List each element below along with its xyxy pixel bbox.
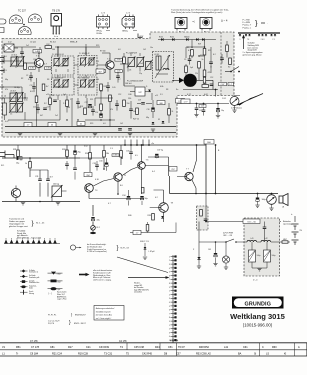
svg-text:4.17: 4.17	[187, 94, 191, 96]
resistor R18	[80, 106, 86, 115]
svg-text:0.62: 0.62	[84, 146, 88, 148]
audio in wire	[2, 155, 80, 159]
label box 40	[48, 123, 56, 127]
svg-text:8: 8	[169, 317, 170, 319]
svg-text:C61: C61	[243, 346, 248, 349]
svg-text:1 2 3: 1 2 3	[101, 13, 105, 15]
svg-text:2 L 306(W) 43: 2 L 306(W) 43	[52, 78, 63, 80]
antenna coil L1	[3, 98, 7, 120]
svg-text:n15: n15	[155, 95, 158, 97]
left edge connector pins	[0, 56, 4, 99]
svg-text:4n7: 4n7	[50, 177, 53, 179]
electrolytic C30 (horizontal)	[16, 156, 22, 164]
svg-text:47k: 47k	[5, 89, 8, 91]
top rail wire	[2, 47, 100, 57]
svg-text:N 29 - 03: N 29 - 03	[121, 248, 130, 250]
svg-text:N.B.LT. 1/9: N.B.LT. 1/9	[140, 241, 149, 243]
svg-text:C42 R45: C42 R45	[142, 353, 152, 356]
capacitor C26	[209, 58, 213, 68]
svg-text:C37: C37	[126, 151, 129, 153]
service note block A	[9, 218, 45, 229]
svg-text:Kl.1: Kl.1	[1, 165, 4, 167]
svg-text:0.16: 0.16	[95, 179, 99, 181]
svg-text:FC-149(Fe)/E: FC-149(Fe)/E	[126, 53, 138, 55]
legend arrow	[79, 273, 90, 276]
misc caps bottom rail	[118, 119, 164, 130]
extra labels quadrant4	[187, 50, 226, 100]
svg-text:R21: R21	[208, 50, 211, 52]
preamp transistor T3a	[11, 186, 20, 202]
earpiece transducer (black)	[172, 74, 213, 91]
svg-text:0.27Ω im Lautsprecher): 0.27Ω im Lautsprecher)	[87, 250, 107, 253]
svg-text:Ge-Diode: Ge-Diode	[29, 275, 36, 277]
lower board labels2	[14, 86, 163, 105]
svg-text:6: 6	[169, 310, 170, 312]
svg-text:1.4: 1.4	[96, 61, 99, 63]
svg-text:0.55: 0.55	[24, 100, 28, 102]
resistor R36	[146, 222, 149, 233]
band diode D3	[184, 36, 189, 41]
diode D7	[161, 216, 164, 218]
legend kOhm note	[49, 291, 67, 301]
svg-text:10µ: 10µ	[221, 110, 224, 112]
transistor T5	[138, 160, 150, 170]
svg-text:E105: E105	[170, 37, 174, 39]
svg-text:8: 8	[169, 283, 170, 285]
svg-text:E105: E105	[159, 37, 163, 39]
svg-text:R53 C59 L42: R53 C59 L42	[196, 353, 211, 356]
extra labels left block	[4, 56, 99, 105]
svg-text:C81: C81	[50, 346, 55, 349]
can grid wires	[57, 44, 86, 100]
svg-text:GE06=: GE06=	[122, 31, 129, 33]
svg-text:R27 1k: R27 1k	[133, 119, 139, 121]
svg-text:S2: S2	[228, 67, 230, 69]
svg-text:C31: C31	[35, 176, 38, 178]
svg-text:C35 C38: C35 C38	[134, 346, 144, 349]
resistor R34	[85, 145, 91, 172]
electrolytic C43 (hatched)	[249, 242, 261, 268]
resistor R19	[168, 103, 174, 123]
svg-text:gemessen geg. Masse: gemessen geg. Masse	[243, 54, 262, 56]
detector wires	[120, 64, 152, 100]
legend col1 row3	[20, 280, 39, 284]
resistor R32a	[25, 158, 31, 177]
wires right lobe	[186, 40, 211, 81]
wires mid left	[2, 87, 60, 120]
note text top	[171, 9, 229, 15]
arrow to chassis note	[242, 35, 259, 52]
legend col1 row4	[20, 285, 37, 290]
oscillator can L5	[153, 52, 174, 83]
svg-text:1k: 1k	[25, 163, 27, 165]
legend part numbers row1	[48, 313, 86, 317]
resistor R23	[198, 59, 204, 68]
svg-text:2: 2	[169, 260, 170, 262]
svg-text:}: }	[117, 246, 119, 252]
svg-text:C40: C40	[128, 94, 131, 96]
legend col1 row2	[20, 275, 39, 279]
svg-text:C37 5µ: C37 5µ	[157, 150, 164, 152]
resistor R37	[120, 145, 123, 165]
svg-text:R60: R60	[272, 346, 277, 349]
svg-text:0.9: 0.9	[100, 91, 103, 93]
legend col1 row5	[20, 290, 34, 295]
svg-text:1: 1	[169, 291, 170, 293]
svg-text:C18: C18	[147, 109, 150, 111]
svg-text:R8: R8	[166, 89, 168, 91]
capacitor C11	[20, 47, 24, 58]
svg-text:4k7: 4k7	[40, 115, 43, 117]
varicap diode D5	[146, 86, 151, 92]
legend part numbers row2	[48, 320, 87, 326]
svg-text:L.7: L.7	[230, 84, 233, 86]
wires T2	[97, 51, 122, 81]
svg-text:3: 3	[169, 332, 170, 334]
svg-text:UKW: UKW	[139, 36, 143, 38]
svg-text:ICIC - 56: ICIC - 56	[247, 222, 256, 224]
power grounds	[252, 268, 267, 282]
svg-text:C7: C7	[63, 77, 65, 79]
band legend text	[243, 19, 269, 30]
svg-text:0.7: 0.7	[108, 203, 111, 205]
pointer arrow	[128, 276, 170, 279]
elcap C37b	[155, 150, 164, 159]
svg-text:C44: C44	[63, 61, 66, 63]
svg-text:470: 470	[208, 72, 211, 74]
svg-text:22k: 22k	[195, 73, 198, 75]
svg-text:+9v: +9v	[151, 143, 154, 145]
power wires	[244, 241, 290, 243]
phone jack J2	[267, 195, 277, 211]
switch contact pair S2	[245, 34, 251, 41]
IC package top view U1	[97, 13, 111, 35]
svg-text:1k2: 1k2	[143, 49, 146, 51]
svg-text:BA: BA	[238, 353, 242, 356]
label FC-1496	[127, 81, 144, 83]
svg-text:R33: R33	[62, 149, 65, 151]
svg-text:(10015-996.00): (10015-996.00)	[243, 323, 273, 328]
trimmer CT5	[9, 103, 24, 116]
electrolytic C36	[255, 194, 266, 208]
resistor R12	[45, 44, 52, 48]
transistor T4	[114, 173, 127, 181]
svg-text:9: 9	[169, 287, 170, 289]
loudspeaker LS	[279, 194, 288, 209]
output jack chain	[90, 205, 101, 234]
svg-text:C7 178: C7 178	[30, 341, 38, 343]
svg-text:Lage n.Plan: Lage n.Plan	[57, 299, 67, 301]
svg-text:100µ: 100µ	[257, 255, 261, 257]
coupling note text	[87, 243, 130, 253]
supply note	[283, 220, 292, 226]
svg-text:L4: L4	[4, 96, 6, 98]
svg-text:3.2: 3.2	[44, 103, 47, 105]
capacitor C33a	[65, 161, 69, 170]
svg-text:±20% wenn n. angeg.: ±20% wenn n. angeg.	[93, 280, 112, 282]
svg-text:2 L 306(S) 44: 2 L 306(S) 44	[79, 78, 89, 80]
svg-text:R13: R13	[104, 86, 107, 88]
delta tolerance note	[221, 19, 228, 23]
trimmer CT4	[9, 91, 24, 103]
IF transformer Fi3	[52, 77, 75, 95]
service note block B	[17, 230, 41, 240]
board name label	[8, 41, 78, 43]
resistor R22	[187, 47, 193, 56]
component value annotations	[5, 45, 213, 125]
svg-text:Pu(2) = L: Pu(2) = L	[243, 27, 252, 29]
svg-text:1: 1	[169, 325, 170, 327]
svg-text:1305: 1305	[113, 155, 117, 157]
label box 1488	[33, 50, 42, 54]
resistor R33	[62, 145, 68, 158]
battery B1	[291, 213, 303, 245]
svg-text:R8: R8	[47, 79, 49, 81]
svg-text:C4 178: C4 178	[119, 341, 127, 343]
svg-text:2 L 305(M) 42: 2 L 305(M) 42	[79, 53, 90, 55]
band diode D1	[158, 37, 216, 41]
wires IF bottom	[72, 91, 115, 127]
svg-text:1k2: 1k2	[120, 123, 123, 125]
svg-text:D2: D2	[158, 119, 160, 121]
label box 28x	[84, 173, 92, 177]
band diode D2	[170, 37, 174, 41]
svg-text:Z-Diode: Z-Diode	[29, 280, 35, 282]
svg-text:C4 40p: C4 40p	[14, 87, 20, 89]
svg-text:einstellen: einstellen	[134, 291, 142, 294]
svg-text:Δ ~ 4: Δ ~ 4	[221, 19, 228, 23]
resistor R35	[148, 214, 155, 221]
svg-text:C9: C9	[184, 59, 186, 61]
svg-text:C52: C52	[118, 94, 121, 96]
svg-text:22p: 22p	[139, 73, 142, 75]
svg-text:R23: R23	[90, 123, 93, 125]
svg-text:2.7: 2.7	[118, 79, 121, 81]
electrolytic C45	[206, 242, 218, 266]
svg-text:0.12: 0.12	[8, 42, 12, 44]
svg-text:R6: R6	[52, 95, 54, 97]
electrolytic C18	[147, 100, 155, 118]
svg-text:2: 2	[169, 329, 170, 331]
power switch	[218, 233, 244, 243]
svg-text:L42: L42	[265, 238, 268, 240]
svg-text:R25: R25	[203, 83, 206, 85]
bottom rail of board	[5, 127, 176, 133]
capacitor C42	[263, 222, 267, 241]
note under arrow	[243, 51, 263, 56]
transistor T6	[159, 203, 174, 213]
svg-text:4: 4	[169, 268, 170, 270]
svg-text:C57: C57	[176, 353, 181, 356]
svg-text:C2: C2	[26, 75, 28, 77]
svg-text:R31: R31	[90, 99, 93, 101]
earphone jack J1	[230, 97, 239, 113]
locator strip row1	[2, 346, 300, 349]
legend col2 row1	[48, 272, 63, 276]
capacitor C15	[43, 107, 49, 110]
band switch contact	[225, 67, 240, 73]
bus taps	[124, 140, 154, 146]
svg-text:GA100: GA100	[184, 36, 189, 39]
svg-text:1.05: 1.05	[112, 87, 116, 89]
svg-text:L41: L41	[224, 346, 229, 349]
capacitor C23	[194, 104, 202, 117]
pointer diagonal	[117, 257, 168, 273]
svg-text:spannung: spannung	[283, 224, 292, 226]
svg-text:FK06=: FK06=	[97, 33, 104, 35]
jack note	[231, 108, 242, 110]
extra audio labels	[84, 146, 158, 218]
transistor package label TC237	[18, 10, 27, 13]
zener diode D8	[193, 242, 201, 268]
legend col2 row3	[48, 287, 63, 291]
svg-text:9: 9	[169, 321, 170, 323]
svg-text:C51: C51	[168, 346, 173, 349]
legend col1 row1	[20, 269, 39, 273]
svg-text:0.47: 0.47	[5, 121, 9, 123]
corner index mark	[138, 34, 143, 39]
svg-text:0.7: 0.7	[44, 64, 47, 66]
svg-text:[…]: […]	[49, 293, 53, 295]
capacitor C41	[204, 219, 208, 221]
label box 300	[204, 140, 214, 145]
label box ICIC-56	[243, 219, 260, 224]
svg-text:C7 178: C7 178	[31, 346, 40, 349]
bottom audio rail	[2, 201, 80, 205]
contact strip column	[169, 255, 177, 343]
capacitor C2	[26, 72, 33, 82]
transistor case bottom view B1	[9, 15, 23, 24]
volume pot P1	[51, 184, 67, 202]
transistor T1	[35, 56, 44, 68]
svg-text:0.62: 0.62	[204, 94, 208, 96]
svg-text:3: 3	[169, 298, 170, 300]
resistor R26	[185, 66, 188, 73]
svg-text:GRUNDIG: GRUNDIG	[245, 301, 272, 307]
svg-text:C19: C19	[138, 100, 141, 102]
svg-text:3.3: 3.3	[28, 79, 31, 81]
resistor R38	[141, 188, 144, 194]
svg-text:LS: LS	[266, 353, 269, 356]
resistor R41	[200, 210, 203, 217]
IF transformer Fi2	[78, 53, 97, 75]
svg-text:0.1: 0.1	[188, 50, 191, 52]
choke L41	[247, 238, 257, 242]
svg-text:1 2 3: 1 2 3	[126, 13, 130, 15]
switch contact pair S1	[239, 34, 241, 41]
svg-text:C7: C7	[15, 67, 17, 69]
box 308	[157, 101, 165, 105]
svg-text:1n5: 1n5	[140, 63, 143, 65]
svg-text:1 kΩ: 1 kΩ	[57, 274, 62, 276]
svg-text:R17: R17	[68, 346, 73, 349]
electrolytic C16	[95, 112, 103, 117]
svg-text:R31: R31	[13, 149, 16, 151]
svg-text:TC 237: TC 237	[18, 10, 27, 13]
electrolytic C25	[216, 104, 224, 118]
label box 306	[45, 67, 52, 70]
trimmer CT1	[10, 55, 25, 68]
coupling plan circle	[70, 245, 81, 250]
capacitor C12	[106, 82, 110, 92]
svg-text:1.05: 1.05	[201, 106, 204, 108]
coupling parts right of T2	[116, 53, 125, 86]
svg-text:n47: n47	[47, 107, 50, 109]
svg-text:L 87µH: L 87µH	[149, 251, 155, 253]
label box 177	[176, 99, 185, 104]
supply bus	[0, 144, 206, 146]
legend col2 row2	[48, 280, 63, 284]
edge connector fragment left	[0, 19, 6, 33]
svg-text:1 kΩ: 1 kΩ	[57, 281, 62, 283]
svg-text:C48 3n3: C48 3n3	[125, 83, 131, 85]
resistor R25	[202, 83, 209, 87]
IF transformer Fi1	[52, 54, 75, 75]
transistor case bottom view B3	[18, 24, 31, 35]
input connector	[0, 151, 5, 168]
transistor case bottom view B2	[28, 14, 42, 22]
svg-text:Pt, Ft, PL: Pt, Ft, PL	[48, 314, 57, 317]
extra labels quadrant3	[128, 94, 139, 121]
svg-text:R19 C28: R19 C28	[78, 353, 88, 356]
boxed service note	[94, 306, 124, 321]
svg-text:Weltklang 3015: Weltklang 3015	[230, 312, 286, 321]
svg-text:Si-Diode: Si-Diode	[29, 270, 35, 272]
svg-text:100µ: 100µ	[272, 255, 276, 257]
svg-text:18k: 18k	[106, 153, 109, 155]
svg-text:R7 560: R7 560	[100, 51, 106, 53]
wire to supply	[199, 194, 281, 264]
resistor R16	[35, 96, 38, 103]
electrolytic C44 (hatched)	[264, 242, 276, 268]
svg-text:Ka: Ka	[176, 89, 178, 91]
svg-text:Diode: Diode	[29, 287, 33, 289]
svg-text:6.8k: 6.8k	[160, 86, 163, 88]
cap C19	[137, 100, 152, 105]
wire below earpiece	[183, 89, 218, 97]
svg-text:n15: n15	[46, 94, 49, 96]
resistor R34b	[103, 145, 109, 169]
svg-text:4.2: 4.2	[155, 197, 158, 199]
svg-text:2: 2	[169, 294, 170, 296]
svg-text:120: 120	[33, 59, 36, 61]
svg-text:R10: R10	[58, 87, 61, 89]
trimmer top view TR1	[175, 18, 187, 34]
svg-text:3.3: 3.3	[160, 94, 163, 96]
choke L42	[261, 238, 271, 242]
svg-text:R34: R34	[85, 153, 88, 155]
label box 305	[29, 67, 36, 70]
svg-text:6: 6	[169, 275, 170, 277]
capacitor C37	[126, 145, 133, 160]
svg-text:C16: C16	[95, 112, 98, 114]
svg-text:R44: R44	[155, 346, 160, 349]
svg-text:1: 1	[240, 39, 241, 41]
output resistor R42	[282, 239, 288, 243]
svg-text:120: 120	[96, 79, 99, 81]
capacitor C17	[91, 106, 95, 116]
locator strip labels above	[30, 341, 179, 343]
svg-text:L2 30.0: L2 30.0	[11, 55, 17, 57]
transistor T3	[85, 184, 99, 193]
capacitor C13	[30, 82, 36, 92]
dial pointer flag	[234, 94, 263, 106]
capacitor C31b	[46, 170, 52, 197]
elcap C30b	[99, 154, 119, 171]
pilot lamp	[222, 242, 229, 269]
svg-text:C23: C23	[199, 110, 202, 112]
svg-text:2n2: 2n2	[26, 45, 29, 47]
